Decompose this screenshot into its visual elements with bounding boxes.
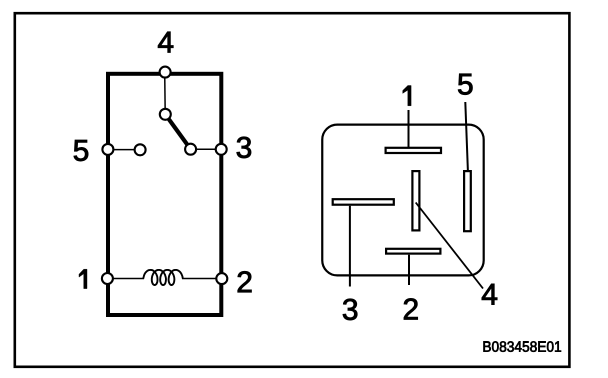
leader line for pin 3 xyxy=(349,206,351,287)
pin 5 blade (vertical slot) xyxy=(464,171,471,231)
pin label 4 (schematic) xyxy=(158,32,173,53)
pin label 1 (schematic) xyxy=(79,269,87,288)
pin label 1 (connector) xyxy=(403,86,411,106)
terminal 3 (circle on right edge) xyxy=(216,144,227,155)
switch end contact circle xyxy=(185,144,196,155)
leader line for pin 1 xyxy=(408,110,410,147)
wire coil to terminal 2 xyxy=(182,278,222,280)
pin label 2 (schematic) xyxy=(238,271,252,292)
pin label 3 (schematic) xyxy=(237,137,251,158)
fixed contact circle near terminal 5 xyxy=(135,144,146,155)
pin 1 blade (horizontal slot) xyxy=(386,148,441,153)
leader line for pin 2 xyxy=(408,255,410,285)
leader line for pin 5 xyxy=(465,102,468,171)
wire from switch contact to terminal 3 xyxy=(191,148,222,150)
pin label 5 (schematic) xyxy=(74,140,88,161)
pin 3 blade (horizontal slot) xyxy=(333,199,394,205)
pin label 4 (connector) xyxy=(482,284,497,305)
relay coil winding between terminals 1 and 2 xyxy=(143,270,182,285)
pin label 2 (connector) xyxy=(404,299,418,320)
wire terminal 1 to coil xyxy=(107,278,144,280)
terminal 5 (circle on left edge) xyxy=(102,144,113,155)
pin 4 blade (vertical slot) xyxy=(412,171,419,230)
drawing code B083458E01 xyxy=(484,341,562,352)
terminal 1 (circle on left edge) xyxy=(102,273,113,284)
switch pivot contact circle xyxy=(160,109,171,120)
switch arm (movable contact, thick diagonal) xyxy=(165,114,190,149)
pin label 3 (connector) xyxy=(343,299,357,320)
leader line for pin 4 (diagonal across slot 4) xyxy=(416,203,483,289)
terminal 4 (circle on top edge) xyxy=(160,67,171,78)
relay connector body outline (right diagram) xyxy=(322,125,483,276)
wire from terminal 5 to fixed contact xyxy=(108,149,140,151)
wire from terminal 4 down to switch pivot xyxy=(164,72,167,114)
terminal 2 (circle on right edge) xyxy=(216,273,227,284)
pin label 5 (connector) xyxy=(458,74,472,95)
pin 2 blade (horizontal slot) xyxy=(386,249,440,254)
relay case outline (left schematic box) xyxy=(108,74,221,315)
